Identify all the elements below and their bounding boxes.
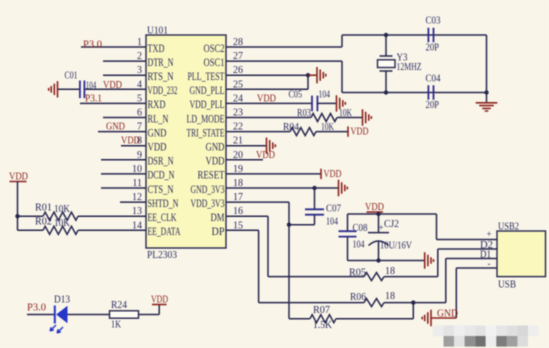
wire pin 19 RESET (226, 173, 321, 175)
svg-text:LD_MODE: LD_MODE (187, 111, 225, 125)
wire OSC1 bottom rail (342, 92, 487, 94)
svg-text:GND: GND (437, 309, 458, 320)
U101 pin 20 VDD label (206, 150, 244, 168)
svg-text:18: 18 (385, 291, 395, 302)
wire pin 23 LD_MODE (226, 117, 311, 119)
svg-text:C08: C08 (353, 223, 368, 234)
USB pin D1 wire (446, 250, 497, 261)
ground (C01) (49, 81, 58, 97)
capacitor CJ2 10U/16V electrolytic (368, 214, 413, 261)
svg-text:C04: C04 (426, 74, 441, 85)
svg-text:12MHZ: 12MHZ (397, 62, 422, 73)
wire R03 to ground (337, 117, 362, 119)
U101 pin 7 GND wire (98, 122, 167, 140)
svg-text:C03: C03 (426, 16, 441, 27)
U101 pin 28 OSC2 label (204, 37, 244, 55)
U101 pin 18 GND_3V3 label (191, 178, 244, 196)
junction crystal top (384, 33, 388, 37)
wire R05 to USB D2 (384, 249, 438, 277)
svg-text:EE_CLK: EE_CLK (148, 210, 177, 224)
svg-text:RTS_N: RTS_N (148, 69, 174, 83)
wire pin 15 DP to R06 (226, 230, 364, 302)
U101 pin 9 DSR_N wire (101, 150, 174, 168)
wire pin 20 VDD (226, 159, 263, 161)
svg-text:GND_PLL: GND_PLL (190, 83, 225, 97)
wire VDD_3V3 to R07 (289, 318, 310, 320)
wire R07 to D1 net (336, 303, 413, 319)
svg-text:DSR_N: DSR_N (148, 154, 174, 168)
wire oscillator ground leg (486, 35, 488, 103)
svg-text:20P: 20P (426, 43, 440, 54)
GND power port (USB shield) (422, 309, 458, 327)
svg-text:20P: 20P (426, 100, 440, 111)
svg-text:VDD: VDD (121, 136, 140, 147)
svg-text:VDD: VDD (148, 140, 167, 154)
wire R24 to VDD port (139, 305, 160, 315)
svg-text:DP: DP (212, 224, 225, 238)
U101 pin 21 GND label (206, 136, 244, 154)
U101 pin 1 TXD wire (81, 37, 165, 55)
U101 pin 5 RXD wire (80, 93, 166, 111)
ground (PLL_TEST) (308, 67, 326, 83)
wire LED to R24 (68, 314, 110, 316)
USB pin + wire (437, 229, 498, 240)
svg-text:VDD: VDD (324, 169, 342, 180)
svg-text:C07: C07 (326, 204, 341, 215)
svg-text:RXD: RXD (148, 97, 166, 111)
wire ground to C01 (58, 88, 79, 90)
capacitor C08 104 (339, 214, 368, 261)
wire P3.0 to LED (27, 314, 54, 316)
junction pin 18 / C07 (312, 186, 316, 190)
svg-text:6: 6 (137, 108, 142, 119)
U101 pin 10 DCD_N wire (101, 164, 175, 182)
svg-text:OSC1: OSC1 (204, 55, 225, 69)
wire R02 to pin 14 (78, 229, 146, 231)
wire pin 16 DM to R05 (226, 216, 364, 276)
U101 pin 23 LD_MODE label (187, 108, 244, 126)
svg-text:OSC2: OSC2 (204, 41, 225, 55)
svg-text:R01: R01 (35, 203, 52, 214)
ground (R03) (363, 109, 372, 125)
U101 pin 22 TRI_STATE label (187, 122, 244, 140)
ground (USB filter) (425, 252, 434, 268)
U101 pin 27 OSC1 label (204, 51, 244, 69)
U101 pin 4 VDD_232 wire (84, 79, 177, 97)
USB2 connector body (497, 231, 546, 277)
wire VDD rail down to R01/R02 (18, 182, 44, 231)
junction VDD rail / CJ2 (376, 212, 380, 216)
svg-text:R03: R03 (297, 108, 311, 119)
wire pin 18 GND_3V3 (226, 187, 338, 189)
VDD power port (EE pull-ups) (9, 172, 28, 183)
svg-text:104: 104 (326, 217, 338, 228)
resistor R01 10K (35, 203, 78, 221)
capacitor C05 104 (289, 90, 331, 112)
wire C05 to ground (317, 102, 336, 104)
wire pin 26 PLL_TEST (226, 75, 308, 89)
svg-text:18: 18 (385, 266, 395, 277)
resistor R07 1.5K (310, 305, 336, 331)
crystal Y3 12MHZ (378, 35, 422, 93)
svg-text:VDD: VDD (351, 127, 369, 138)
VDD power port (USB filter) (365, 202, 384, 213)
svg-text:3: 3 (137, 65, 142, 76)
svg-text:USB: USB (498, 280, 516, 291)
svg-text:10K: 10K (54, 218, 71, 229)
svg-text:R05: R05 (349, 268, 366, 279)
watermark (433, 326, 539, 347)
svg-text:10: 10 (132, 164, 142, 175)
svg-text:PLL_TEST: PLL_TEST (188, 69, 225, 83)
svg-text:C05: C05 (289, 90, 303, 101)
wire pin 24 VDD_PLL (226, 102, 312, 104)
junction VDD rail / R01 (15, 214, 19, 218)
svg-text:P3.0: P3.0 (27, 303, 46, 314)
svg-text:TXD: TXD (148, 41, 165, 55)
U101 pin 17 VDD_3V3 label (191, 192, 244, 210)
ground (pin 21) (267, 138, 276, 154)
U101 pin 8 VDD wire (121, 136, 167, 154)
wire pin 22 TRI_STATE (226, 131, 290, 133)
svg-text:GND_3V3: GND_3V3 (191, 182, 225, 196)
svg-text:R04: R04 (283, 122, 299, 133)
svg-text:VDD: VDD (256, 150, 275, 161)
svg-text:GND: GND (206, 140, 225, 154)
svg-text:1K: 1K (111, 320, 122, 331)
VDD power port (R24) (151, 295, 168, 306)
VDD power port (R04) (348, 126, 369, 137)
svg-text:VDD: VDD (151, 295, 168, 306)
LED D13 (50, 295, 70, 334)
wire VDD top rail (348, 213, 437, 215)
svg-text:12: 12 (132, 192, 142, 203)
svg-text:RL_N: RL_N (148, 111, 169, 125)
U101 pin 3 RTS_N wire (103, 65, 174, 83)
wire R04 to VDD port (316, 131, 348, 133)
svg-text:C01: C01 (65, 71, 78, 82)
svg-text:9: 9 (137, 150, 142, 161)
svg-text:2: 2 (137, 51, 142, 62)
svg-text:DCD_N: DCD_N (148, 168, 175, 182)
U101 pin 2 DTR_N wire (103, 51, 174, 69)
svg-text:R06: R06 (350, 292, 366, 303)
USB pin D2 wire (438, 240, 497, 251)
svg-text:VDD: VDD (103, 80, 122, 91)
svg-text:+: + (487, 229, 492, 239)
svg-text:EE_DATA: EE_DATA (148, 224, 181, 238)
svg-text:7: 7 (137, 122, 142, 133)
svg-text:P3.1: P3.1 (85, 94, 102, 105)
resistor R04 10K (283, 122, 335, 136)
svg-text:VDD_3V3: VDD_3V3 (191, 196, 225, 210)
U101 pin 14 EE_DATA wire (78, 220, 181, 238)
capacitor C03 20P (426, 16, 441, 54)
ground (C05) (337, 95, 346, 111)
resistor R02 10K (35, 217, 78, 235)
wire VDD rail to R02 (18, 229, 44, 231)
svg-text:USB2: USB2 (498, 222, 519, 233)
svg-text:VDD: VDD (257, 94, 276, 105)
svg-text:SHTD_N: SHTD_N (148, 196, 179, 210)
svg-text:DTR_N: DTR_N (148, 55, 174, 69)
junction C07 / VDD_3V3 (287, 223, 291, 227)
svg-text:GND: GND (148, 125, 167, 139)
svg-text:104: 104 (353, 240, 365, 251)
svg-text:R24: R24 (111, 300, 127, 311)
svg-text:-: - (488, 259, 491, 269)
wire pin 25 GND_PLL (226, 88, 308, 90)
U101 pin 26 PLL_TEST label (188, 65, 244, 83)
svg-text:U101: U101 (147, 26, 168, 37)
svg-text:GND: GND (106, 122, 125, 133)
svg-text:CJ2: CJ2 (384, 219, 399, 230)
wire filter ground rail (348, 260, 425, 262)
IC U101 PL2303 body (146, 35, 226, 248)
svg-text:11: 11 (132, 178, 142, 189)
svg-text:R02: R02 (35, 217, 52, 228)
svg-text:CTS_N: CTS_N (148, 182, 174, 196)
wire pin 28 OSC2 to top rail (226, 35, 342, 47)
svg-text:4: 4 (137, 79, 142, 90)
svg-text:R07: R07 (313, 305, 330, 316)
svg-text:VDD_232: VDD_232 (148, 83, 178, 97)
junction CJ2 / ground rail (376, 258, 380, 262)
svg-text:+: + (379, 223, 384, 233)
svg-text:PL2303: PL2303 (147, 250, 177, 261)
resistor R06 18 (350, 291, 395, 307)
junction PLL_TEST (306, 73, 310, 77)
ground (pin 18) (339, 180, 348, 196)
svg-text:104: 104 (319, 90, 331, 101)
svg-text:10K: 10K (54, 204, 71, 215)
junction oscillator ground (484, 90, 488, 94)
svg-text:D13: D13 (54, 295, 70, 306)
svg-text:RESET: RESET (198, 168, 225, 182)
U101 pin 16 DM label (211, 206, 244, 224)
wire VDD rail to USB + (436, 214, 438, 240)
U101 pin 6 RL_N wire (103, 108, 169, 126)
svg-text:P3.0: P3.0 (83, 40, 102, 51)
svg-text:104: 104 (86, 81, 97, 92)
U101 pin 19 RESET label (198, 164, 244, 182)
svg-text:VDD: VDD (206, 154, 225, 168)
junction crystal bottom (384, 90, 388, 94)
wire pin 27 OSC1 to bottom rail (226, 61, 342, 92)
svg-text:1: 1 (137, 37, 142, 48)
svg-text:5: 5 (137, 93, 142, 104)
capacitor C07 104 (289, 188, 341, 228)
svg-text:VDD_PLL: VDD_PLL (190, 97, 225, 111)
U101 pin 15 DP label (212, 220, 244, 238)
VDD power port (RESET) (321, 169, 342, 180)
U101 pin 24 VDD_PLL label (190, 93, 244, 111)
svg-text:10U/16V: 10U/16V (380, 241, 413, 252)
resistor R03 10K (297, 108, 353, 122)
ground (oscillator) (476, 103, 498, 111)
capacitor C04 20P (426, 74, 441, 112)
svg-text:1.5K: 1.5K (313, 320, 333, 331)
U101 pin 12 SHTD_N wire (120, 192, 179, 210)
wire pin 17 VDD_3V3 down (226, 202, 289, 319)
capacitor C01 104 (65, 71, 97, 99)
wire R06 to USB D1 (384, 259, 446, 303)
wire pin 21 GND (226, 145, 266, 147)
U101 pin 11 CTS_N wire (101, 178, 174, 196)
svg-text:TRI_STATE: TRI_STATE (187, 125, 225, 139)
resistor R24 1K (110, 300, 139, 331)
svg-text:DM: DM (211, 210, 225, 224)
USB pin - wire (456, 259, 497, 319)
wire R01 to pin 13 (78, 215, 146, 217)
wire OSC2 top rail (342, 34, 487, 36)
U101 pin 25 GND_PLL label (190, 79, 244, 97)
junction R06 / R07 (411, 300, 415, 304)
resistor R05 18 (349, 266, 395, 281)
U101 pin 13 EE_CLK wire (78, 206, 177, 224)
